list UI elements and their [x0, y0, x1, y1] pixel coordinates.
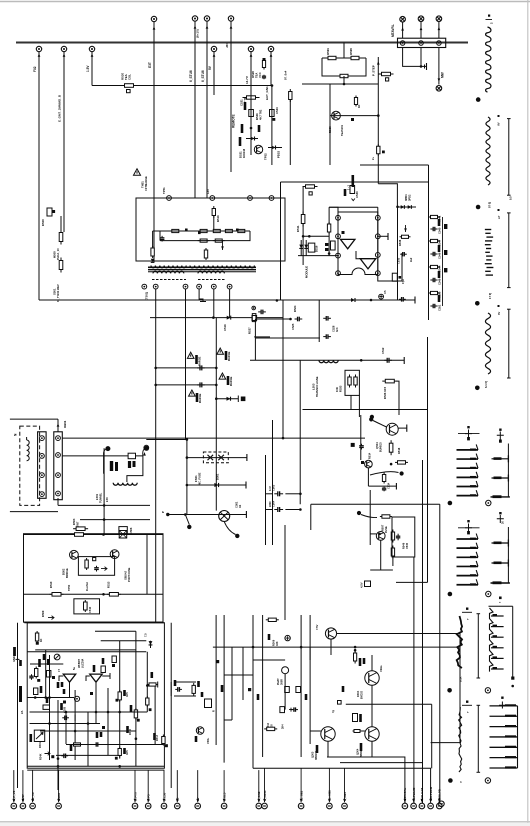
wire bottom leads mid2 group [264, 768, 266, 802]
wire oa2 in [86, 676, 90, 681]
wire y504 corner down [439, 504, 441, 803]
resistor R501 [72, 533, 87, 537]
wire x61 col [60, 216, 62, 232]
component small sq b2 [90, 692, 93, 695]
junction q504 in [369, 417, 373, 421]
svg-text:7.5V: 7.5V [315, 624, 319, 630]
connector pin 1_F5 [145, 803, 151, 809]
svg-text:E3T: E3T [148, 62, 152, 68]
svg-text:D301: D301 [39, 741, 42, 748]
svg-text:C5: C5 [383, 290, 387, 294]
wire x163 col [162, 535, 164, 623]
tee y360 [403, 357, 405, 364]
svg-text:3V: 3V [497, 312, 501, 315]
svg-text:MARGE: MARGE [230, 376, 233, 386]
svg-text:X2: X2 [238, 504, 242, 508]
wire EXT_GN1 lead [270, 52, 272, 86]
op-amp IC301b [90, 674, 102, 682]
box R533 [345, 370, 359, 395]
svg-text:MW: MW [441, 72, 445, 78]
resistor R528 [289, 89, 292, 102]
arc r557 [361, 515, 377, 518]
connector pin E_GM7 [61, 46, 66, 51]
label W8 top [497, 515, 504, 523]
svg-text:u 1K: u 1K [460, 676, 463, 682]
probe dot W4 [475, 386, 480, 391]
wire v x136 [135, 631, 137, 766]
label W3 top [498, 209, 500, 211]
wire inner top4 [27, 651, 146, 653]
wire y514 bus [168, 514, 247, 516]
svg-text:300R: 300R [281, 679, 284, 685]
capacitor col b [323, 334, 331, 339]
tick left [16, 658, 20, 660]
pin header 3 [437, 41, 442, 46]
blob mid c [257, 694, 260, 700]
pad 1K [36, 642, 39, 645]
svg-text:GBU4J: GBU4J [124, 571, 128, 580]
pin IC501 p2 [336, 234, 341, 239]
component small sq [351, 118, 354, 121]
blob bl1 [93, 665, 96, 672]
svg-text:D516: D516 [315, 245, 319, 252]
wire v x414 [413, 557, 415, 803]
junction x147 [146, 684, 149, 687]
svg-text:D521: D521 [239, 151, 243, 158]
component C527 pads [325, 243, 328, 246]
svg-text:Q304: Q304 [356, 748, 360, 755]
wire v x120 [119, 641, 121, 759]
svg-text:R34K: R34K [40, 753, 43, 760]
svg-text:PONT FUSE: PONT FUSE [128, 567, 131, 582]
pin b4 [56, 491, 61, 496]
wire diode branch y485 [187, 484, 246, 486]
wire F02 lead [38, 52, 40, 300]
wire y570 stub [370, 569, 393, 571]
probe dot W11 [448, 778, 453, 783]
transistor Q505 [365, 460, 373, 468]
junction y513 [357, 511, 361, 515]
pad R311 [149, 708, 152, 711]
wire q503 link [370, 533, 376, 535]
diode pair D513 [401, 205, 405, 209]
blob upper mid b [258, 125, 261, 132]
box IC301 outline [27, 623, 164, 768]
wire 1.5V bus [92, 85, 272, 87]
wire box h y744 [120, 744, 164, 746]
junction br [102, 533, 105, 536]
svg-text:1N4148: 1N4148 [242, 148, 246, 158]
svg-text:CFTMARGE: CFTMARGE [144, 176, 148, 191]
box mid right edge [427, 337, 429, 582]
wire bridge bottom [24, 621, 164, 623]
svg-text:1T: 1T [58, 669, 61, 672]
svg-text:R509: R509 [41, 610, 45, 617]
svg-text:97_0v4: 97_0v4 [284, 70, 288, 80]
junction [377, 114, 380, 117]
capacitor C533 [400, 252, 407, 256]
resistor R511 [151, 246, 154, 258]
thermistor R505 PTC a [105, 446, 110, 451]
wire y594 bus [24, 593, 164, 595]
resistor R318 [118, 747, 121, 758]
svg-text:R: R [213, 710, 216, 712]
wire x285 down [284, 674, 286, 710]
blob bl3 [57, 682, 60, 688]
pin IC501 p3 [336, 253, 341, 258]
svg-text:4K7 TR2: 4K7 TR2 [259, 109, 263, 120]
junction q503 [378, 533, 381, 536]
wire box h y664 [30, 663, 63, 665]
capacitor C526 box [249, 110, 254, 117]
svg-text:R591: R591 [326, 48, 330, 55]
resistor stack a [262, 59, 265, 70]
svg-text:C506: C506 [129, 527, 133, 534]
svg-text:BUH515: BUH515 [380, 442, 383, 452]
waveform W10 stairs top bar [489, 605, 513, 607]
label C301 blob [38, 659, 41, 667]
wire y236 link [303, 235, 329, 237]
component small box [252, 316, 257, 321]
junction br2 [102, 593, 105, 596]
svg-text:A7: A7 [497, 215, 501, 219]
wire cluster down [343, 76, 345, 84]
wire v x155 [154, 685, 156, 746]
svg-text:TP51: TP51 [162, 187, 166, 194]
resistor snub r1d [223, 229, 235, 232]
junction f3 [184, 513, 187, 516]
wire x253 col [252, 615, 254, 768]
degauss dashed box [20, 426, 40, 505]
wire y504 bus [311, 503, 440, 505]
blob bl5 [96, 732, 99, 738]
capacitor C512 [384, 358, 392, 363]
wire y582 link [396, 581, 428, 583]
wire inner top [35, 649, 136, 651]
capacitor C302 [29, 674, 33, 680]
capacitor stack b [262, 75, 266, 80]
junction [343, 83, 346, 86]
capacitor C549 [430, 278, 437, 282]
waveform W7 comb [457, 538, 479, 540]
svg-text:P: P [161, 511, 165, 513]
resistor R515 vert [204, 248, 207, 260]
capacitor C307 [61, 754, 68, 759]
warning triangle B [217, 348, 224, 354]
transformer shield dash a [152, 279, 186, 281]
thermistor R505 PTC b [144, 446, 149, 451]
svg-text:R310: R310 [129, 728, 132, 735]
pin snub b [210, 196, 215, 201]
connector pin REMOTE [228, 16, 233, 21]
wire y360 bus [250, 359, 404, 361]
wire y439 link [146, 439, 187, 441]
wire mains bus2 [62, 455, 143, 457]
connector pin X_GN2 [256, 803, 262, 809]
connector strip DB01b [54, 432, 63, 500]
box control top2 [360, 164, 429, 166]
connector pin F02 [36, 46, 41, 51]
wire x283 down [282, 300, 284, 438]
wire COT lead [153, 22, 155, 262]
rectifier D502 a [70, 550, 79, 559]
component fuse box on bus [128, 453, 135, 459]
arc DF01 tail [224, 522, 235, 535]
wire sec drop 4 [199, 289, 203, 302]
component mid sq a [248, 688, 251, 691]
wire box v x108 [107, 688, 109, 755]
wire x251 col [250, 92, 252, 155]
wire x216 col [215, 318, 217, 511]
component box h1 [101, 666, 105, 673]
connector pin top b [418, 16, 424, 22]
svg-text:R527: R527 [248, 327, 252, 334]
wire x380 down [380, 540, 382, 570]
resistor R506 [85, 558, 88, 570]
diode D516 [299, 245, 303, 249]
label D302a [359, 658, 362, 666]
junction a [328, 252, 331, 255]
wire x243 col [242, 647, 244, 700]
connector pin L5 [175, 803, 181, 809]
svg-text:9.5: 9.5 [509, 196, 513, 200]
pads snub [185, 229, 188, 232]
scan border bottom [0, 821, 530, 823]
pin snub c [248, 196, 253, 201]
box corner right [254, 336, 270, 338]
wire x359 col [358, 395, 360, 417]
svg-text:VCC: VCC [258, 72, 262, 78]
svg-text:(T501): (T501) [145, 292, 149, 300]
svg-text:R526: R526 [255, 113, 259, 120]
connector header MTAVRL [398, 38, 446, 47]
wire x262 col [262, 615, 264, 757]
wire sec drop 1 [155, 289, 157, 622]
diode D521 [251, 137, 255, 141]
wire y647 bus [213, 646, 460, 648]
resistor R307 [192, 683, 195, 696]
svg-text:6.1 0]: 6.1 0] [484, 381, 488, 388]
box snubber outline [136, 198, 285, 261]
connector pin 6_STUB [192, 16, 197, 21]
wire q301 right link [337, 633, 460, 635]
svg-text:2+: 2+ [371, 157, 375, 160]
component D508 box [47, 208, 52, 216]
svg-text:2K4: 2K4 [282, 724, 285, 729]
svg-text:2200: 2200 [269, 501, 272, 507]
wire y505 bus [58, 504, 150, 506]
diode D509 [151, 259, 155, 263]
transistor V301 [196, 727, 204, 735]
label W4 top [498, 305, 500, 307]
connector pin 1.5V [89, 46, 94, 51]
wire q303 base [310, 730, 321, 732]
capacitor mid d [291, 707, 298, 711]
wire out bottom [378, 253, 402, 281]
component C527 box [331, 241, 336, 250]
junction y647 dots [252, 646, 255, 649]
connector pin 5V [195, 803, 201, 809]
resistor snub r2b [213, 239, 225, 242]
wire q303 down [327, 741, 329, 757]
component base res q304 [353, 730, 362, 733]
wire v x424 [422, 460, 424, 803]
svg-text:MODULE: MODULE [305, 266, 309, 278]
pin a1 [40, 436, 45, 441]
wire main bus y300 [39, 299, 415, 301]
wire cap rail left [265, 455, 267, 545]
circled plus R306 [285, 635, 290, 640]
pin IC501 p4 [336, 271, 341, 276]
svg-text:AV: AV [497, 122, 501, 126]
resistor R520 pad [127, 90, 131, 93]
waveform W5 comb [457, 449, 479, 451]
warning triangle A [187, 352, 194, 358]
component stack pad [263, 58, 266, 60]
junction y319 [289, 318, 292, 321]
wire fuse through [187, 457, 247, 459]
box bridge inner [78, 557, 114, 576]
probe dot W7 [448, 592, 453, 597]
transistor Q303 BD234 [321, 727, 335, 741]
waveform W9 noisy [457, 616, 462, 668]
capacitor C522 [160, 236, 165, 242]
label R331 [359, 714, 362, 722]
svg-text:01_TY234 10EV: 01_TY234 10EV [57, 284, 60, 302]
wire q301 stub [330, 639, 332, 655]
svg-text:R503: R503 [72, 518, 76, 525]
capacitor C pin2 tee [421, 65, 427, 67]
component r mid a [285, 687, 290, 693]
svg-text:3LPLILIM: 3LPLILIM [420, 788, 424, 801]
svg-text:R514: R514 [368, 452, 372, 459]
pin IC501 p7 [375, 253, 380, 258]
waveform W5 plus mark [465, 430, 472, 438]
svg-text:TEA: TEA [255, 73, 259, 78]
junction C307 [57, 757, 60, 760]
svg-text:MC_FUSE: MC_FUSE [198, 472, 202, 485]
box control right edge [428, 165, 430, 307]
wire oa1 in left [59, 676, 63, 681]
wire R536 down [397, 381, 400, 415]
pad R301 [37, 679, 40, 682]
svg-text:R544: R544 [438, 265, 442, 272]
probe pin W6 [486, 500, 491, 505]
connector pin 3V3F [20, 803, 26, 809]
waveform W4 sine [485, 313, 490, 374]
junction bx2 [48, 722, 51, 725]
junction x283 bus1 [282, 437, 285, 440]
label blob under oa1 [63, 689, 66, 694]
junction j2 [103, 518, 106, 521]
svg-text:C512: C512 [381, 347, 385, 354]
junction big [370, 415, 374, 419]
resistor R311 [146, 696, 149, 707]
blob rcol c [438, 271, 441, 278]
wire y486 stub [368, 485, 396, 487]
wire DB01 feed [57, 419, 59, 432]
wire x310 col2 [309, 615, 311, 744]
right small parts [444, 224, 447, 229]
transistor Q504 BUH515 [386, 423, 398, 435]
op-amp IC501 outline [338, 212, 378, 275]
wire q505 down [367, 468, 369, 486]
svg-text:F02: F02 [33, 66, 37, 72]
wire x378 mid [377, 154, 379, 184]
blob bl4 [43, 654, 46, 660]
svg-text:D501: D501 [216, 473, 220, 480]
resistor S501 [59, 258, 63, 273]
resistor R547 [428, 239, 440, 242]
svg-text:3PD1: 3PD1 [404, 194, 408, 201]
arrow in box [101, 567, 107, 571]
svg-text:MARGE: MARGE [199, 356, 202, 366]
svg-text:R313: R313 [156, 734, 159, 741]
capacitor C507 [94, 566, 99, 572]
svg-text:C548: C548 [438, 252, 442, 259]
diode D302 [147, 683, 158, 686]
wire box v x66 [65, 712, 67, 744]
tee D302 [157, 682, 159, 688]
component R537 box [365, 581, 371, 587]
svg-text:TUNNEL: TUNNEL [100, 492, 103, 503]
svg-text:6_STU6: 6_STU6 [189, 70, 193, 82]
blob R303 [40, 686, 43, 693]
junction [271, 84, 274, 87]
svg-text:C549: C549 [438, 278, 442, 285]
capacitor C308 [94, 742, 101, 746]
wire nest 4 [372, 756, 405, 758]
resistor snub r1c [211, 229, 223, 232]
wire y317 line [150, 317, 283, 319]
svg-text:C525: C525 [291, 323, 295, 330]
wire 1.5V lead bend [91, 52, 93, 86]
connector pin ALPLILIM [411, 803, 417, 809]
box bridge outline [24, 534, 164, 622]
connector pin GND3 [56, 803, 62, 809]
svg-text:SBBLPB: SBBLPB [438, 789, 442, 801]
wire 6_STUB lead [194, 21, 196, 198]
diode D520 [227, 397, 231, 401]
label tri A [195, 355, 198, 364]
resistor R536 [382, 379, 397, 383]
svg-text:D502: D502 [62, 568, 66, 575]
capacitor C524 [258, 310, 266, 315]
resistor snub r1e [235, 229, 247, 232]
svg-text:6_STU6: 6_STU6 [201, 70, 205, 82]
svg-text:FS01: FS01 [194, 475, 198, 482]
wire bottom leads left group [13, 770, 15, 802]
wire nest 1 [327, 757, 405, 803]
rectifier D502 b [110, 550, 119, 559]
resistor top a [303, 185, 318, 188]
junction x397 [396, 206, 399, 209]
connector pin X_FR3L [262, 803, 268, 809]
svg-text:FLASH: FLASH [85, 582, 89, 591]
connector pin L_8L5 [221, 803, 227, 809]
capacitor C551 [430, 304, 437, 308]
svg-text:R569: R569 [328, 126, 332, 133]
wire x255 col [254, 319, 256, 360]
transformer shield dash b [198, 279, 226, 281]
waveform W1 spring [486, 27, 491, 92]
capacitor C518 [197, 365, 205, 370]
capacitor C513 [359, 444, 364, 450]
svg-text:R590: R590 [349, 48, 353, 55]
svg-text:R536 1K5: R536 1K5 [383, 386, 387, 399]
component C514 res [382, 473, 385, 484]
svg-text:REMOTE: REMOTE [232, 114, 236, 128]
